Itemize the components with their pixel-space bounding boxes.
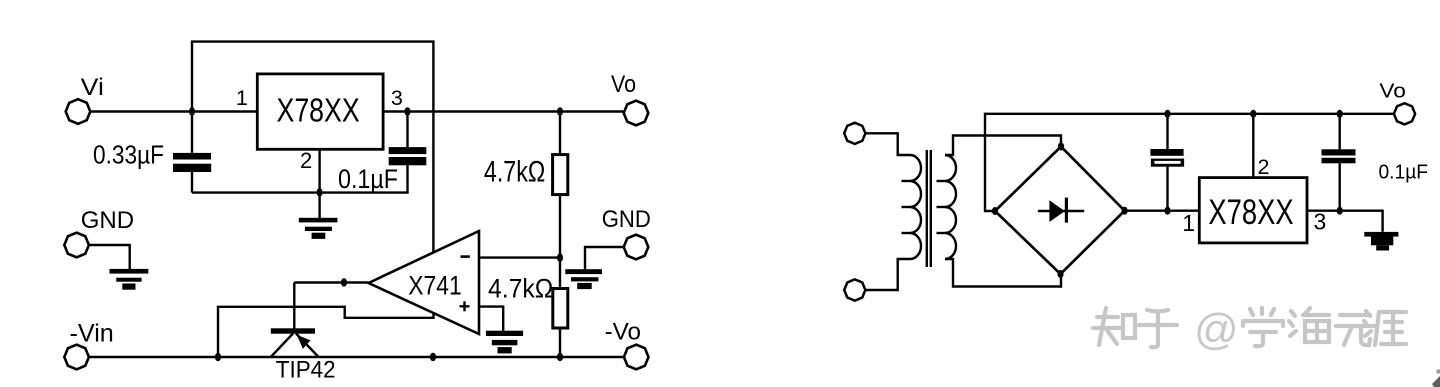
capacitor C3 electrolytic bbox=[1150, 114, 1184, 211]
svg-text:GND: GND bbox=[81, 207, 134, 234]
node bridge right bbox=[1122, 207, 1128, 215]
svg-text:4.7kΩ: 4.7kΩ bbox=[484, 156, 545, 189]
svg-text:TIP42: TIP42 bbox=[276, 357, 336, 384]
inductor L2 secondary winding bbox=[945, 155, 956, 259]
regulator U1 X78XX bbox=[257, 74, 383, 149]
svg-text:X78XX: X78XX bbox=[1208, 193, 1293, 232]
node output junction bbox=[557, 107, 563, 115]
svg-text:GND: GND bbox=[602, 206, 651, 233]
inductor L1 primary winding bbox=[910, 155, 921, 259]
node bridge bottom bbox=[1057, 270, 1063, 278]
svg-text:3: 3 bbox=[391, 86, 403, 110]
pin minus mark bbox=[461, 255, 470, 258]
transistor Q1 TIP42 bbox=[271, 328, 319, 357]
terminal transformer top bbox=[844, 123, 865, 144]
regulator U3 X78XX bbox=[1199, 178, 1307, 243]
node cap1 bottom junction bbox=[1164, 207, 1170, 215]
wire Vi to X78XX pin1 bbox=[90, 110, 258, 112]
svg-text:4.7kΩ: 4.7kΩ bbox=[488, 274, 553, 304]
wire outer loop top bbox=[192, 42, 433, 252]
node bridge top bbox=[1058, 143, 1064, 151]
svg-text:2: 2 bbox=[1258, 155, 1270, 179]
node rail junction B bbox=[430, 353, 436, 361]
wire secondary bottom lead bbox=[945, 259, 1061, 287]
capacitor C4 0.1uF bbox=[1322, 114, 1356, 211]
winding nubs primary bbox=[902, 181, 911, 233]
svg-text:0.1µF: 0.1µF bbox=[1379, 162, 1429, 184]
watermark xuehai wuya bbox=[1243, 308, 1406, 346]
node C2 top junction bbox=[404, 107, 410, 115]
node rail cap2 bbox=[1337, 110, 1343, 118]
node output wire dot bbox=[341, 278, 347, 286]
wire bridge left to top rail bbox=[985, 114, 1394, 211]
wire pin2 stub bbox=[318, 149, 320, 192]
ground GND right bbox=[565, 247, 624, 289]
capacitor C2 0.1uF bbox=[389, 112, 427, 166]
wire feedback lower path bbox=[218, 307, 434, 357]
wire pin3 to ground bbox=[1307, 211, 1383, 232]
watermark zhihu bbox=[1093, 308, 1177, 347]
node rail pin2 bbox=[1250, 110, 1256, 118]
node rail junction C bbox=[557, 353, 563, 361]
diode D1 bbox=[1038, 198, 1084, 223]
svg-text:Vi: Vi bbox=[81, 74, 104, 101]
svg-text:@: @ bbox=[1194, 305, 1239, 354]
terminal Vo right bbox=[1394, 103, 1415, 124]
ground at plus input bbox=[486, 331, 523, 354]
pin plus mark bbox=[460, 301, 470, 311]
node bridge left bbox=[992, 207, 998, 215]
wire pin3 to Vo bbox=[383, 110, 623, 112]
svg-text:-Vin: -Vin bbox=[70, 320, 114, 348]
wire inverting input bbox=[479, 256, 560, 258]
node pin3 cap2 junction bbox=[1337, 207, 1343, 215]
terminal -Vo bbox=[624, 345, 649, 370]
ground right circuit bbox=[1364, 232, 1398, 251]
terminal GND right bbox=[624, 235, 649, 260]
terminal transformer bottom bbox=[844, 279, 865, 300]
wire plus input to ground bbox=[479, 307, 503, 331]
wire base drive bbox=[293, 283, 295, 329]
wire bridge right to pin1 bbox=[1125, 209, 1200, 211]
svg-text:3: 3 bbox=[1314, 209, 1327, 235]
svg-text:0.33µF: 0.33µF bbox=[93, 140, 164, 170]
node inverting junction bbox=[557, 253, 563, 261]
node rail cap1 bbox=[1164, 110, 1170, 118]
ground GND left bbox=[88, 245, 148, 290]
svg-text:X78XX: X78XX bbox=[277, 92, 360, 129]
terminal -Vin bbox=[64, 345, 89, 370]
terminal Vo bbox=[624, 101, 649, 126]
svg-text:1: 1 bbox=[1182, 210, 1195, 236]
node rail junction A bbox=[215, 353, 221, 361]
terminal GND left bbox=[64, 233, 89, 258]
bridge rectifier diamond bbox=[995, 147, 1125, 275]
wire bottom loop bbox=[192, 164, 408, 193]
svg-text:-Vo: -Vo bbox=[605, 319, 641, 346]
transformer core bbox=[927, 150, 931, 267]
winding nubs secondary bbox=[937, 181, 946, 233]
svg-text:Vo: Vo bbox=[1379, 80, 1406, 103]
wire resistor column upper bbox=[559, 112, 561, 156]
wire R2 to rail bbox=[559, 327, 561, 357]
svg-text:Vo: Vo bbox=[611, 71, 636, 98]
svg-text:0.1µF: 0.1µF bbox=[338, 164, 398, 194]
wire R1 to R2 bbox=[559, 195, 561, 289]
wire primary bottom lead bbox=[865, 259, 910, 290]
node pin2 junction bbox=[317, 188, 323, 196]
op-amp U2 X741 bbox=[369, 231, 480, 334]
wire primary top lead bbox=[865, 133, 910, 155]
svg-text:X741: X741 bbox=[408, 270, 461, 300]
capacitor C1 0.33uF bbox=[173, 112, 211, 193]
wire op-amp output bbox=[294, 281, 368, 283]
resistor R1 4.7k bbox=[553, 155, 568, 195]
node input junction bbox=[189, 107, 195, 115]
svg-text:2: 2 bbox=[300, 148, 312, 173]
ground under pin2 bbox=[299, 193, 338, 239]
wire pin2 stub right bbox=[1252, 114, 1254, 178]
wire secondary top lead bbox=[945, 136, 1061, 156]
terminal Vi bbox=[66, 99, 91, 124]
svg-text:1: 1 bbox=[236, 86, 248, 110]
resistor R2 4.7k bbox=[553, 289, 568, 329]
wire bottom rail bbox=[88, 356, 625, 358]
corner mark bbox=[1432, 370, 1440, 387]
